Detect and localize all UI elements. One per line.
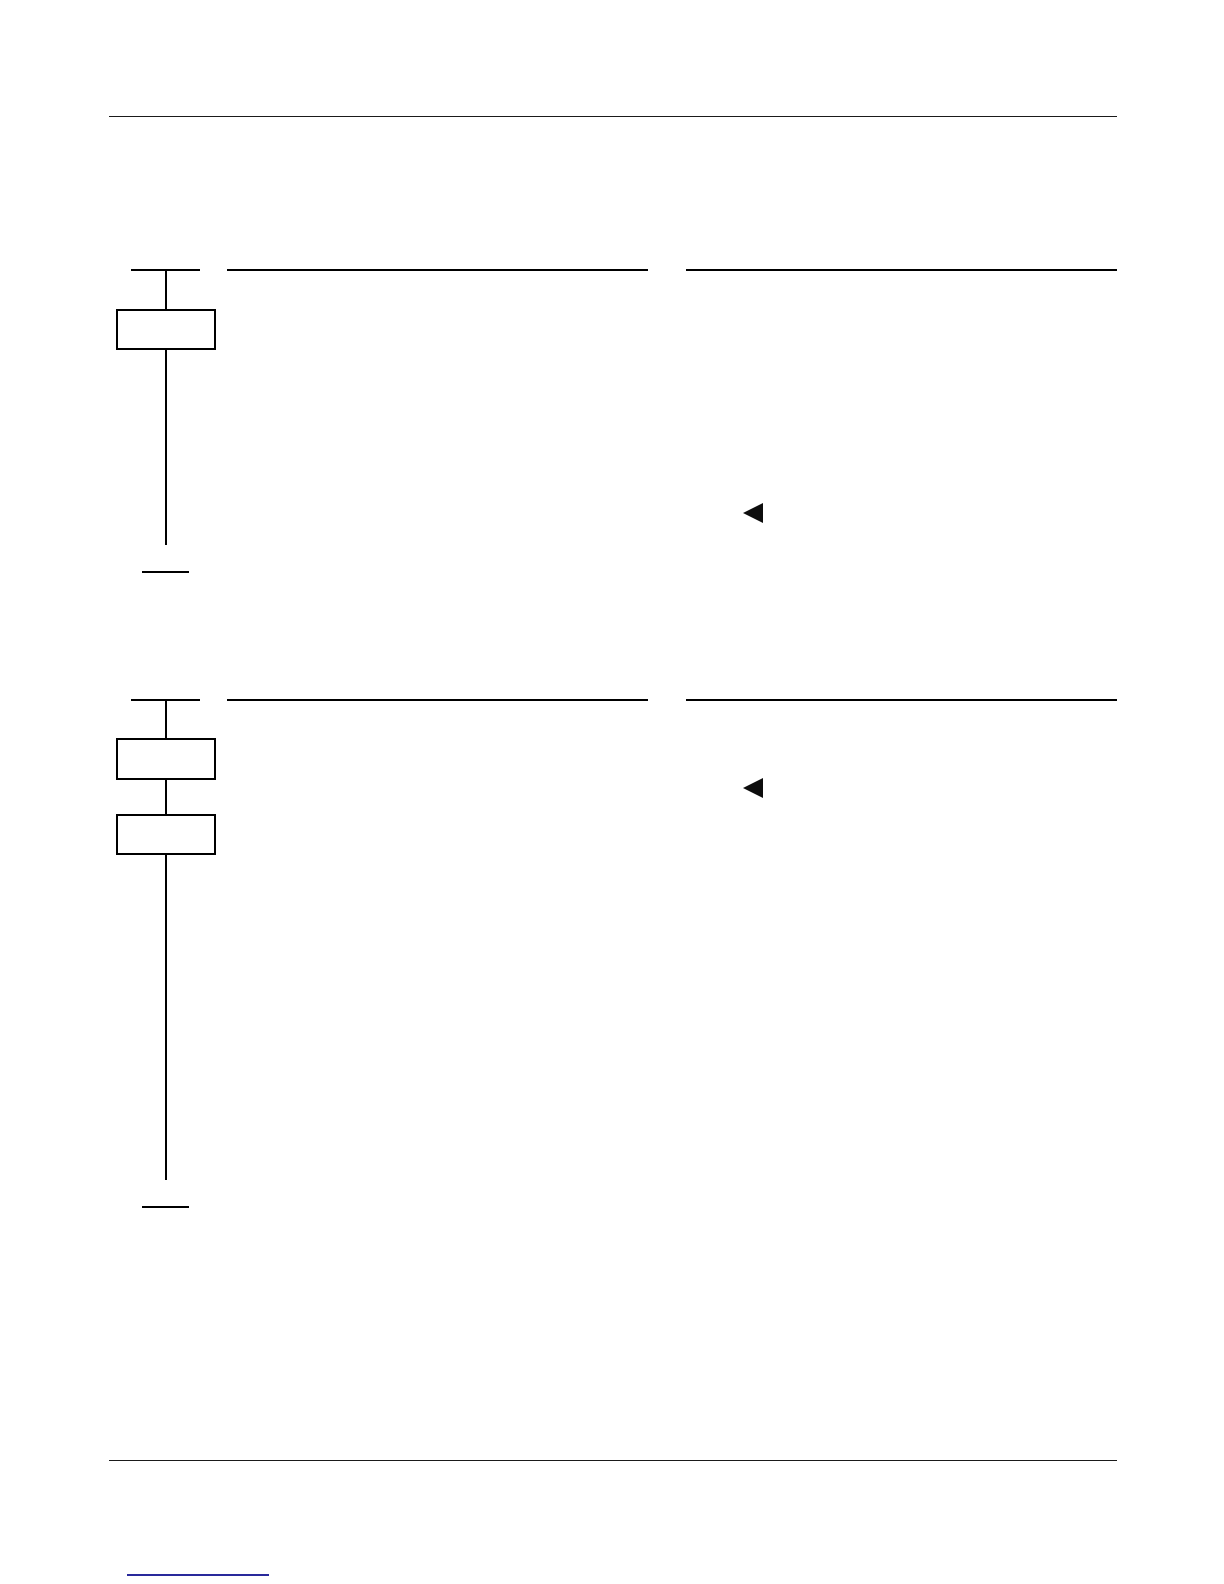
diagram 1 : step box S1 [116, 309, 216, 350]
diagram 1 : wire from rail to step box [165, 270, 167, 310]
footer rule [109, 1460, 1117, 1461]
diagram 2 : step box S2 [116, 814, 216, 855]
diagram 1 : top rail left bar [131, 269, 200, 271]
diagram 2 : top rail left bar [131, 699, 200, 701]
footer link underline [127, 1574, 269, 1576]
diagram 1 : terminator bar [142, 571, 189, 573]
diagram 2 : terminator bar [142, 1206, 189, 1208]
diagram 2 : wire from rail to step box 1 [165, 700, 167, 739]
diagram 2 : change-bar triangle marker [743, 778, 763, 798]
diagram 2 : wire between step boxes [165, 780, 167, 815]
diagram 1 : change-bar triangle marker [743, 503, 763, 523]
diagram 2 : top rail segment B [686, 699, 1117, 701]
diagram 2 : top rail segment A [227, 699, 648, 701]
diagram 1 : top rail segment A [227, 269, 648, 271]
diagram 2 : step box S1 [116, 738, 216, 780]
diagram 1 : top rail segment B [686, 269, 1117, 271]
header rule [109, 116, 1117, 117]
diagram 2 : wire below step box 2 [165, 855, 167, 1180]
diagram 1 : wire below step box [165, 350, 167, 545]
